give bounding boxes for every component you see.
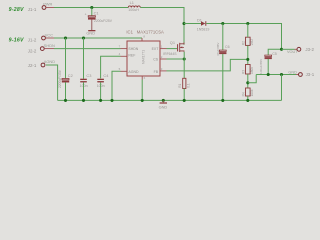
resistor R1 (183, 78, 186, 88)
svg-text:IRF644S: IRF644S (163, 52, 177, 56)
svg-text:SHDN: SHDN (44, 43, 55, 48)
pin stub IC GND (bottom) (141, 76, 143, 80)
svg-text:REF: REF (128, 54, 135, 58)
svg-text:SHDN: SHDN (128, 47, 138, 51)
svg-text:FB: FB (154, 70, 159, 74)
svg-text:C1: C1 (94, 10, 99, 15)
svg-text:C2: C2 (68, 73, 73, 78)
diode D1 (201, 21, 206, 26)
wire IC GND to ground rail (141, 80, 143, 101)
svg-text:100uF/35V: 100uF/35V (259, 58, 263, 74)
wire C6 bottom lead (crosses FB wire) (222, 54, 224, 101)
svg-text:C5: C5 (272, 52, 277, 56)
svg-text:C6: C6 (225, 45, 230, 49)
wire R3 bottom lead (247, 74, 249, 88)
wire R3/R4 node to ground row (248, 75, 256, 83)
node junction CS / source (183, 57, 186, 60)
connector pin J2-2 circle (40, 47, 44, 51)
wire FB to divider tap (167, 59, 248, 71)
capacitor C5 (polarized) (265, 55, 272, 59)
ground symbol on rail (160, 100, 167, 103)
wire C3 bottom lead (83, 82, 85, 100)
svg-text:J2-1: J2-1 (28, 63, 37, 68)
capacitor C2 (polarized) (62, 79, 69, 83)
svg-text:C3: C3 (86, 73, 91, 78)
pin stub IC REF (121, 55, 128, 57)
node junction C6 column on VOUT rail (221, 22, 224, 25)
ground symbol below C1 (88, 30, 95, 31)
resistor R2 (246, 37, 251, 45)
svg-text:GND: GND (159, 104, 168, 109)
pin stub J1-2 (46, 37, 55, 39)
resistor R4 (246, 88, 251, 96)
connector pin J1-1 circle (42, 6, 46, 10)
pin stub IC EXT (160, 48, 167, 50)
svg-text:L1: L1 (130, 0, 134, 5)
svg-text:IC1: IC1 (126, 29, 133, 34)
svg-text:J1-1: J1-1 (28, 7, 37, 12)
node junction C2 on rail (64, 99, 67, 102)
capacitor C4 (97, 79, 104, 83)
pin stub J3-1 (296, 74, 299, 76)
connector pin J3-1 circle (299, 73, 303, 77)
svg-text:0.1: 0.1 (186, 83, 190, 88)
svg-text:100uH: 100uH (128, 8, 139, 12)
svg-text:2M2: 2M2 (250, 39, 254, 45)
wire C1 top lead (91, 8, 93, 16)
node junction AGND on rail (110, 99, 113, 102)
node junction switch node / diode branch (182, 22, 185, 25)
wire PWR net (J1-1 to L1) (54, 7, 128, 9)
pin stub IC FB (160, 70, 167, 72)
svg-text:2200uF/35V: 2200uF/35V (58, 69, 62, 88)
connector pin J1-2 circle (42, 36, 46, 40)
node junction divider tap (246, 58, 249, 61)
svg-text:J2-2: J2-2 (28, 48, 37, 53)
svg-text:J3-2: J3-2 (305, 47, 314, 52)
wire PWR net (L1 to switch node) (140, 8, 184, 45)
svg-text:R2: R2 (241, 41, 245, 45)
svg-text:CS: CS (153, 57, 159, 61)
svg-text:AGND: AGND (44, 59, 55, 64)
node junction R2 column on VOUT rail (246, 22, 249, 25)
svg-text:180k: 180k (250, 67, 254, 74)
wire VOUT rail (diode to output corner) (206, 24, 281, 50)
svg-text:Q1: Q1 (170, 40, 175, 45)
wire C2 bottom lead (65, 82, 67, 100)
pin stub IC CS (160, 58, 167, 60)
wire AGND net (J2-1 to ground rail) (46, 65, 58, 100)
svg-text:2200uF/25V: 2200uF/25V (94, 19, 113, 23)
capacitor C6 (polarized) (219, 50, 226, 54)
wire C1 bottom lead (91, 20, 93, 31)
svg-text:GND: GND (86, 31, 95, 36)
svg-text:VCC: VCC (45, 32, 53, 37)
wire VCC net (J1-2 to IC V+) (54, 37, 142, 39)
connector pin J3-2 circle (297, 47, 301, 51)
wire C5 bottom lead (267, 59, 269, 75)
wire Q1 source to R1 (183, 52, 185, 79)
wire ground rail (58, 99, 282, 101)
op-amp/controller IC1 MAX1771 box (127, 41, 160, 76)
node junction VOUT (280, 48, 283, 51)
svg-text:AGND: AGND (128, 70, 139, 74)
wire diode anode branch (184, 23, 201, 25)
transistor Q1 (n-channel MOSFET) (178, 43, 184, 53)
resistor R3 (246, 65, 251, 75)
node junction C5 on GND row (267, 73, 270, 76)
svg-text:MAX1771: MAX1771 (142, 50, 146, 64)
svg-text:R1: R1 (178, 83, 182, 87)
wire IC AGND to ground rail (112, 71, 121, 100)
node junction R4 on rail (246, 99, 249, 102)
node junction IC GND on rail (141, 99, 144, 102)
wire GND row to J3-1 (256, 74, 296, 76)
node junction C4 on rail (99, 99, 102, 102)
pin stub J1-1 (46, 7, 54, 9)
node junction C1 on PWR (90, 6, 93, 9)
node junction R3/R4 (246, 81, 249, 84)
svg-text:MAX1771CSA: MAX1771CSA (137, 29, 164, 34)
pin stub J2-2 (44, 48, 54, 50)
pin stub IC AGND (121, 70, 128, 72)
node junction GND riser (280, 73, 283, 76)
svg-text:100k: 100k (250, 89, 254, 96)
svg-text:J1-2: J1-2 (28, 38, 37, 43)
svg-text:9-28V: 9-28V (9, 7, 24, 13)
node junction C6 on rail (221, 99, 224, 102)
wire VOUT row to C5 (268, 49, 281, 55)
svg-text:GND: GND (288, 71, 297, 75)
pin stub J3-2 (295, 48, 298, 50)
capacitor C3 (80, 79, 87, 83)
svg-text:9-16V: 9-16V (9, 38, 24, 44)
pin stub IC V+ (top) (141, 38, 143, 41)
wire R4 to ground rail (247, 96, 249, 100)
capacitor C1 (polarized) (88, 16, 95, 20)
connector pin J2-1 circle (41, 63, 45, 67)
svg-text:+: + (85, 12, 87, 16)
wire SHDN net (J2-2 to IC) (54, 48, 121, 50)
wire R2 leads (247, 24, 249, 38)
svg-text:C4: C4 (103, 73, 109, 78)
inductor L1 (128, 6, 140, 8)
wire R1 to ground rail (183, 89, 185, 101)
svg-text:J3-1: J3-1 (306, 72, 315, 77)
node junction R1 on rail (183, 99, 186, 102)
wire C2 top lead (65, 38, 67, 79)
svg-text:VOUT: VOUT (287, 50, 298, 54)
wire EXT to Q1 gate (167, 48, 178, 50)
svg-text:R3: R3 (241, 70, 245, 74)
node junction C2 on VCC (64, 36, 67, 39)
svg-text:EXT: EXT (152, 47, 160, 51)
svg-text:R4: R4 (241, 92, 245, 96)
pin stub IC SHDN (121, 48, 128, 50)
node junction C3 on rail (82, 99, 85, 102)
wire C6 top lead (222, 24, 224, 51)
node junction C3 on VCC (82, 36, 85, 39)
wire VOUT to J3-2 (282, 48, 295, 50)
wire REF net (C4 to IC REF) (101, 56, 121, 78)
node junction ground symbol on rail (162, 99, 165, 102)
wire C4 bottom lead (100, 82, 102, 100)
wire CS to Q1 source node (167, 58, 185, 60)
svg-text:1N5819: 1N5819 (197, 27, 210, 31)
wire GND riser to rail (281, 75, 283, 101)
wire C3 top lead (83, 38, 85, 79)
